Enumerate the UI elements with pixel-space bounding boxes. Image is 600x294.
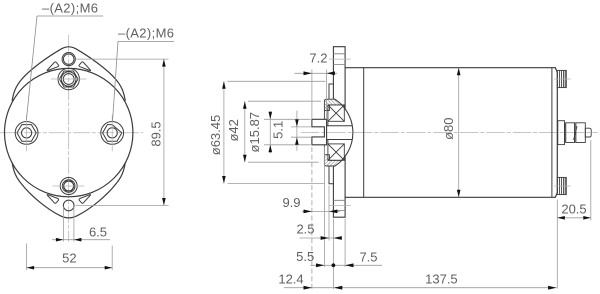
bottom ear cutout left (47, 195, 59, 204)
flange plate offset front (329, 84, 333, 184)
svg-text:ø15.87: ø15.87 (247, 112, 262, 152)
rear top through-bolt stud (557, 70, 566, 87)
top ear cutout right (79, 62, 91, 71)
centerline vertical front view (68, 35, 70, 242)
svg-text:7.5: 7.5 (359, 249, 377, 264)
svg-text:6.5: 6.5 (89, 224, 107, 239)
top bearing block X (328, 105, 344, 121)
terminal insulator base (558, 121, 565, 145)
bottom bearing block X (328, 144, 344, 160)
ext plate front below (328, 186, 330, 241)
bottom bearing cap hatched (324, 155, 342, 166)
centerline horizontal front view (0, 132, 143, 134)
terminal nut 2 (576, 123, 586, 143)
svg-text:ø80: ø80 (441, 117, 456, 139)
dim dia63.45 (208, 81, 326, 183)
dim dia15.87 (247, 111, 311, 153)
flange ear tab side (333, 47, 345, 218)
svg-text:12.4: 12.4 (278, 271, 303, 286)
bottom hex bolt (53, 178, 84, 195)
svg-text:ø63.45: ø63.45 (208, 115, 223, 155)
svg-text:5.1: 5.1 (271, 121, 286, 139)
motor body outline side (345, 68, 557, 198)
dim 89.5 (76, 59, 169, 205)
svg-text:137.5: 137.5 (425, 272, 458, 287)
hub bore lines (327, 126, 352, 140)
tab hole bottom centerline (330, 205, 351, 207)
rear bottom stud centerline (555, 185, 571, 187)
svg-text:89.5: 89.5 (149, 121, 164, 146)
svg-text:9.9: 9.9 (282, 195, 300, 210)
dim 20.5 (557, 140, 591, 289)
svg-text:ø42: ø42 (226, 119, 241, 141)
svg-text:2.5: 2.5 (296, 222, 314, 237)
top ear mounting hole (62, 53, 75, 66)
top hex bolt (51, 68, 86, 89)
terminal washer (575, 123, 576, 143)
tab hole bottom edges (333, 200, 345, 210)
bottom ear mounting hole (63, 200, 74, 211)
ext hub face above (326, 70, 328, 120)
right hex bolt (101, 115, 124, 151)
motor body circle front (5, 68, 133, 196)
axis centerline side view (301, 132, 598, 134)
flange bottom ear (12, 163, 125, 218)
dim 9.9 (282, 195, 340, 214)
top bearing cap hatched (324, 99, 342, 110)
svg-text:20.5: 20.5 (561, 201, 586, 216)
left hex bolt (15, 115, 38, 151)
body seam rear (551, 68, 553, 198)
top cap lip (324, 111, 328, 126)
flange top ear (12, 47, 125, 101)
washer slash (574, 127, 577, 140)
rear bottom through-bolt stud (557, 177, 566, 194)
svg-text:–(A2);M6: –(A2);M6 (42, 1, 98, 16)
dim 5.5 and 7.5 (296, 249, 382, 267)
dim 5.1 (271, 111, 311, 151)
shaft with slot (312, 119, 327, 145)
ext shaft end above (311, 70, 313, 120)
terminal step (565, 124, 566, 141)
top ear cutout left (47, 62, 59, 71)
dim 7.2 (295, 51, 338, 76)
tab hole top edges (333, 54, 345, 65)
svg-text:5.5: 5.5 (296, 249, 314, 264)
svg-text:7.2: 7.2 (309, 51, 327, 66)
ext slot bottom below (323, 147, 325, 268)
dim 12.4 and 137.5 (278, 271, 556, 289)
dim 6.5 (52, 207, 110, 242)
bottom ear cutout right (79, 195, 91, 204)
dim dia80 (441, 68, 460, 198)
dim dia42 (226, 101, 321, 162)
dim 52 (27, 244, 113, 271)
body seam front (363, 68, 365, 198)
ext body front below (344, 219, 346, 267)
dim 2.5 (296, 222, 342, 240)
rear top stud centerline (555, 78, 571, 80)
svg-text:52: 52 (62, 250, 76, 265)
bearing dome (335, 99, 353, 166)
tab hole top centerline (330, 58, 351, 60)
terminal stud (585, 128, 591, 137)
bottom cap lip (324, 140, 328, 155)
terminal nut 1 (566, 123, 575, 143)
ext ear face below (332, 219, 334, 289)
ext shaft end dashed below (311, 147, 313, 289)
svg-text:–(A2);M6: –(A2);M6 (118, 26, 174, 41)
